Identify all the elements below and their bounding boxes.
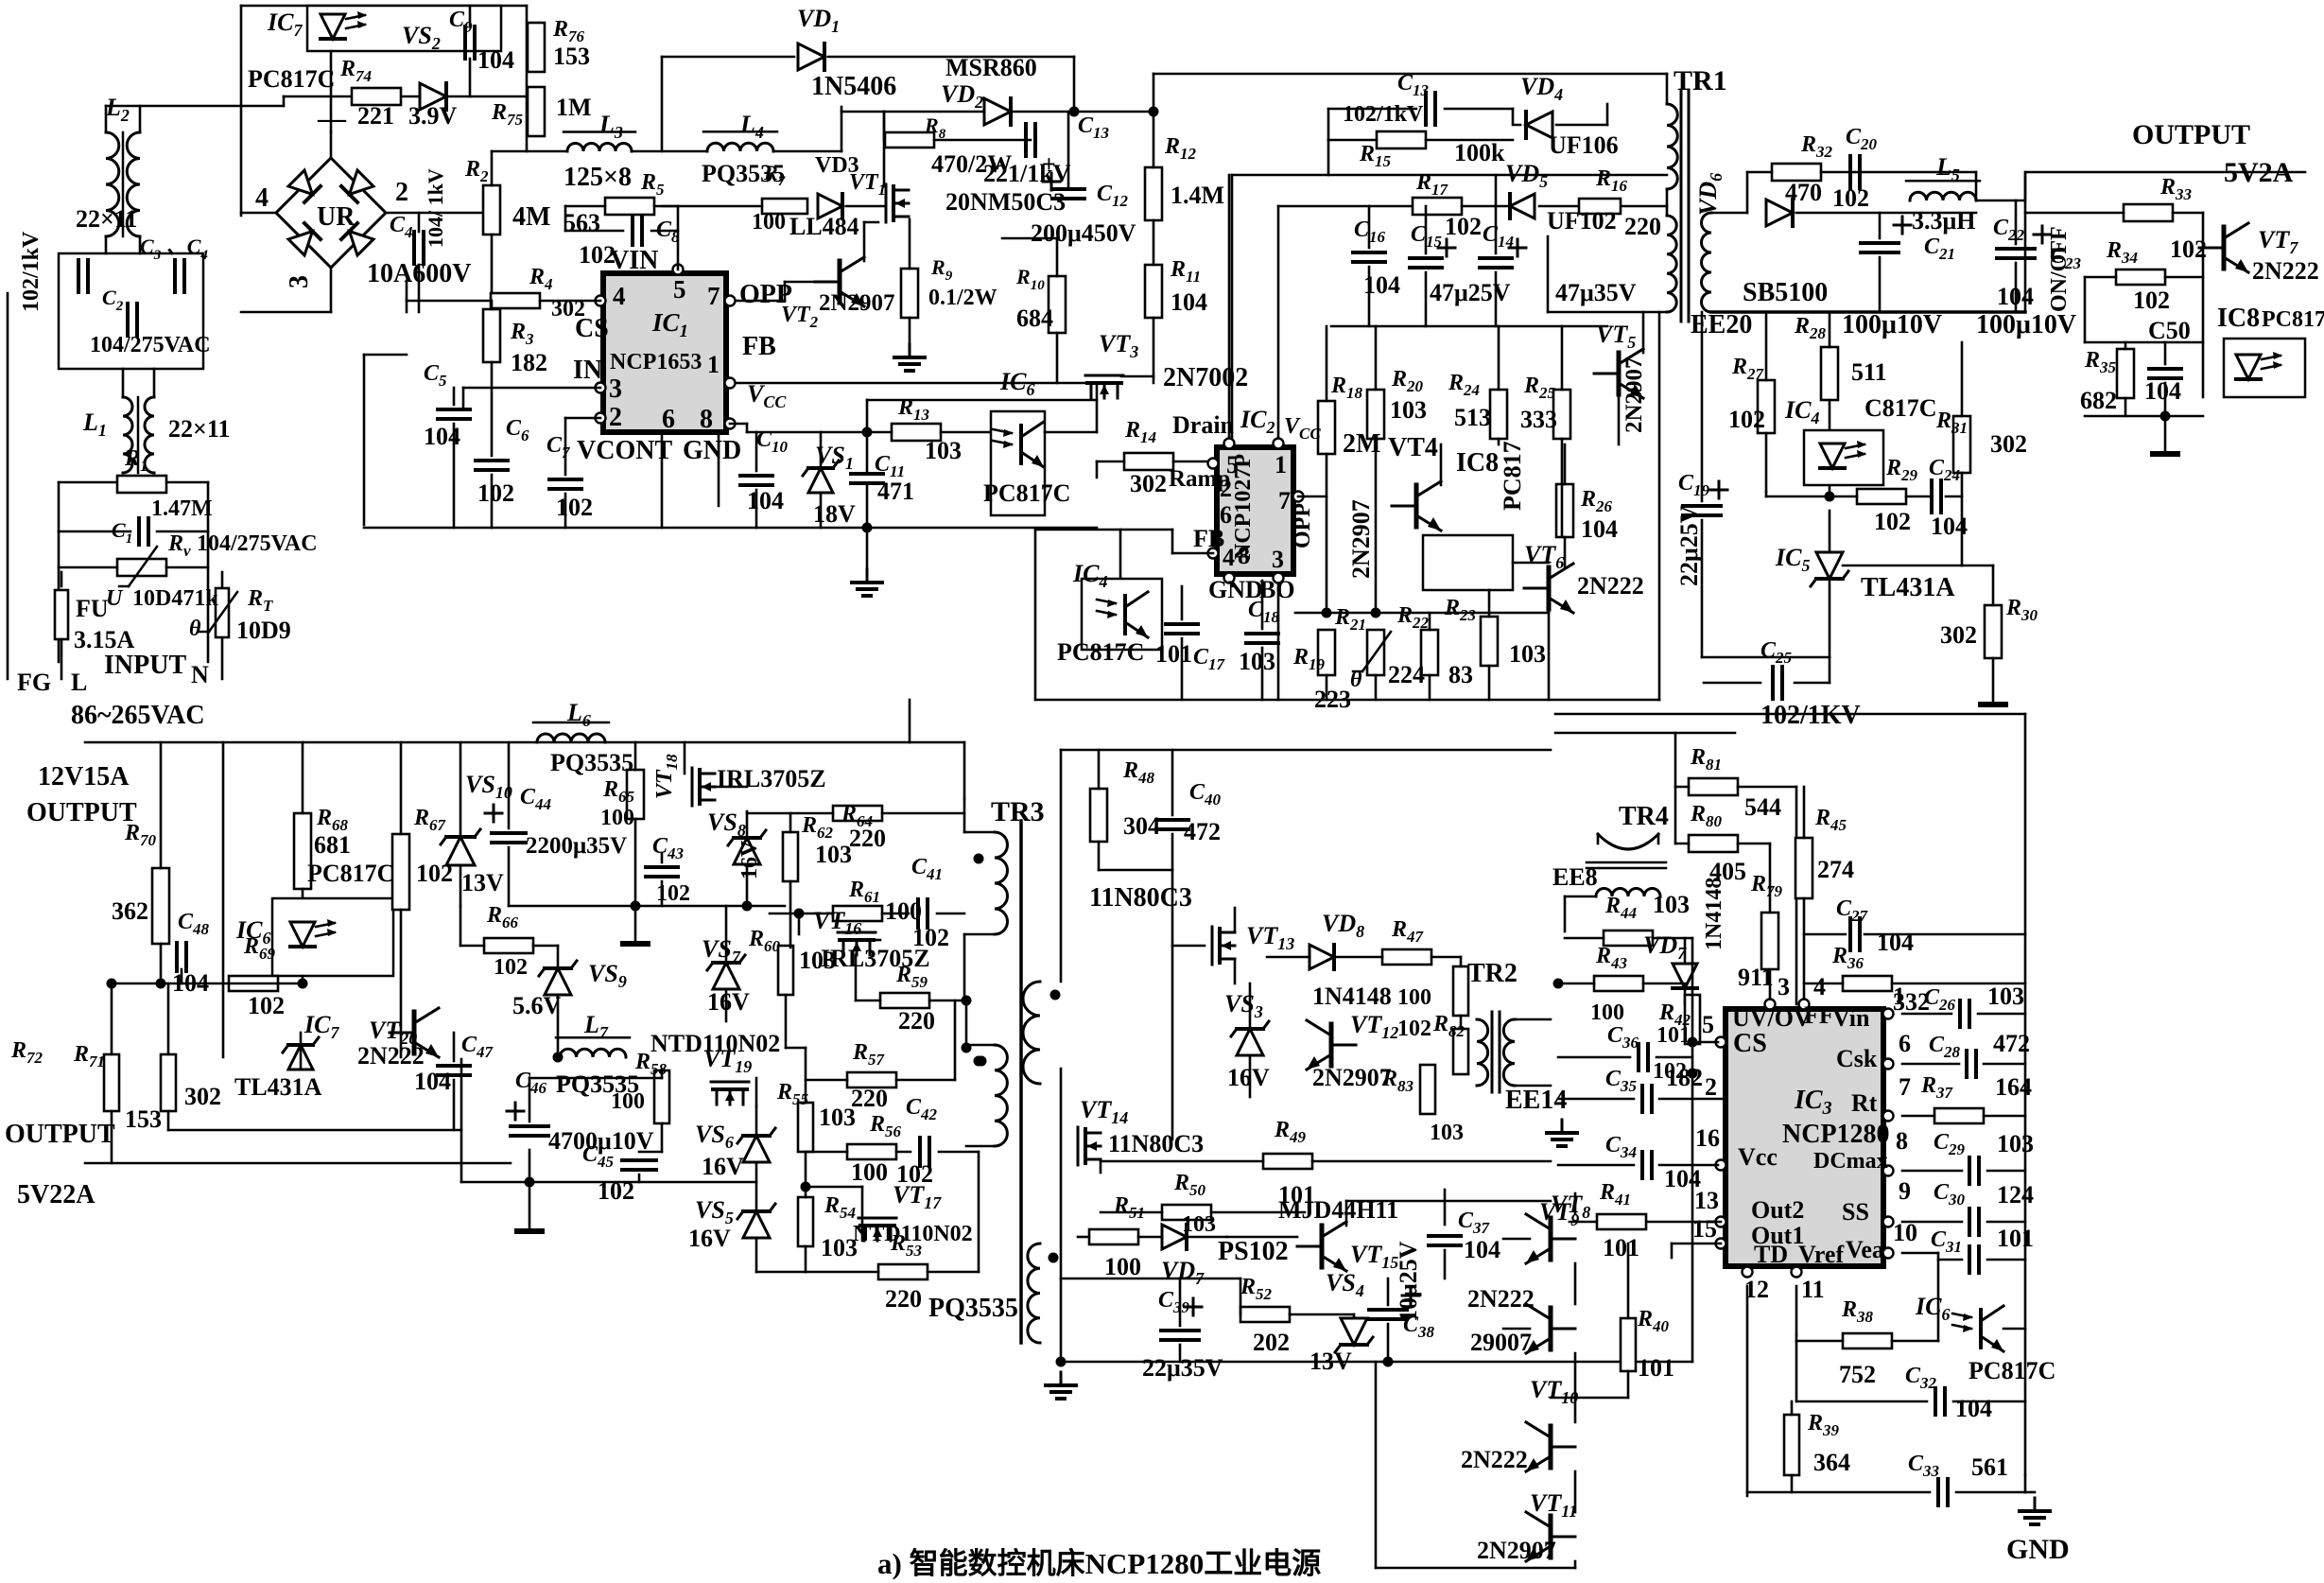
svg-text:86~265VAC: 86~265VAC [71,701,205,730]
svg-text:IC8: IC8 [1456,448,1499,478]
svg-text:IN: IN [573,356,602,385]
svg-text:10D471k: 10D471k [132,586,218,611]
svg-text:Out2: Out2 [1751,1196,1804,1224]
svg-text:302: 302 [184,1083,221,1110]
svg-text:103: 103 [1509,640,1546,668]
svg-text:2N2907: 2N2907 [1622,357,1647,433]
svg-text:153: 153 [553,43,590,70]
svg-text:563: 563 [564,209,600,236]
svg-text:102: 102 [656,881,690,906]
svg-text:VT4: VT4 [1388,433,1438,462]
svg-text:1.47M: 1.47M [151,496,213,521]
svg-text:IC8: IC8 [2217,304,2260,333]
svg-text:EE14: EE14 [1505,1086,1567,1115]
svg-text:2M: 2M [1343,429,1380,459]
svg-text:IRL3705Z: IRL3705Z [821,945,930,972]
svg-text:10D9: 10D9 [236,617,291,644]
svg-text:302: 302 [1940,621,1977,649]
svg-text:OUTPUT: OUTPUT [5,1120,115,1149]
svg-text:16: 16 [1695,1124,1720,1152]
svg-text:911: 911 [1738,964,1774,991]
svg-text:2N222: 2N222 [357,1042,425,1070]
svg-text:202: 202 [1253,1329,1290,1356]
svg-text:103: 103 [819,1104,856,1131]
svg-text:BO: BO [1259,576,1295,603]
svg-text:θ: θ [189,617,201,641]
svg-text:182: 182 [1666,1064,1703,1091]
svg-text:544: 544 [1744,793,1781,821]
svg-text:Csk: Csk [1836,1045,1878,1072]
svg-text:13V: 13V [1309,1348,1352,1375]
svg-text:C50: C50 [2148,317,2191,344]
svg-text:PC817C: PC817C [307,860,394,887]
svg-text:101: 101 [1638,1354,1674,1382]
svg-text:104: 104 [747,487,784,514]
svg-text:102: 102 [2170,235,2207,263]
svg-text:IRL3705Z: IRL3705Z [717,765,826,792]
svg-text:8: 8 [700,405,713,434]
svg-text:12: 12 [1744,1276,1769,1303]
svg-text:302: 302 [551,297,585,322]
svg-text:1M: 1M [556,94,592,121]
svg-text:472: 472 [1184,818,1221,845]
svg-text:7: 7 [1278,487,1291,514]
svg-text:100: 100 [885,897,922,925]
svg-text:302: 302 [1990,430,2027,458]
svg-text:20NM50C3: 20NM50C3 [945,188,1066,216]
svg-text:2200μ35V: 2200μ35V [526,833,627,859]
svg-text:10A600V: 10A600V [367,259,471,288]
svg-text:104: 104 [1171,288,1207,316]
svg-text:4: 4 [1813,973,1826,1000]
svg-text:472: 472 [1993,1030,2030,1057]
svg-text:100: 100 [1590,1000,1624,1025]
svg-text:102: 102 [416,860,453,887]
svg-text:DCmax: DCmax [1813,1149,1888,1174]
svg-text:102: 102 [494,955,528,980]
svg-text:103: 103 [1430,1121,1464,1145]
svg-text:Vref: Vref [1798,1241,1844,1268]
svg-text:18V: 18V [813,500,856,528]
svg-text:5V2A: 5V2A [2224,157,2294,188]
svg-text:16V: 16V [1227,1064,1270,1091]
svg-text:SB5100: SB5100 [1743,278,1828,307]
svg-text:LL484: LL484 [789,213,859,240]
svg-text:2N222: 2N222 [1461,1446,1528,1473]
svg-text:103: 103 [1997,1130,2034,1157]
svg-text:223: 223 [1314,686,1351,713]
svg-text:8: 8 [1896,1127,1908,1155]
svg-text:104: 104 [424,423,460,450]
svg-text:104/275VAC: 104/275VAC [197,531,318,556]
svg-text:PC817: PC817 [1499,441,1526,511]
svg-text:11N80C3: 11N80C3 [1108,1130,1204,1157]
svg-text:OUTPUT: OUTPUT [2132,119,2250,150]
svg-text:2N2907: 2N2907 [1347,499,1375,579]
svg-text:104: 104 [477,46,514,74]
svg-text:104: 104 [1363,271,1400,299]
svg-text:PQ3535: PQ3535 [550,749,633,776]
svg-text:22×11: 22×11 [168,415,230,443]
svg-text:103: 103 [799,947,836,974]
svg-text:FF: FF [1804,1001,1834,1029]
svg-text:681: 681 [314,831,351,859]
svg-text:2N222: 2N222 [1467,1285,1535,1313]
svg-text:2N222: 2N222 [1577,572,1644,600]
svg-text:2N2907: 2N2907 [1477,1537,1556,1564]
svg-text:NCP1653: NCP1653 [610,350,702,374]
svg-text:NCP1027P: NCP1027P [1231,454,1256,560]
svg-text:2: 2 [609,403,622,432]
svg-text:ON/OFF: ON/OFF [2047,226,2072,312]
svg-text:561: 561 [1971,1453,2008,1481]
svg-text:FG: FG [17,669,51,696]
svg-text:47μ35V: 47μ35V [1555,279,1637,306]
svg-text:104/ 1kV: 104/ 1kV [424,168,447,248]
svg-text:100: 100 [1397,985,1431,1010]
svg-text:220: 220 [885,1285,922,1313]
svg-text:103: 103 [1653,891,1690,918]
svg-text:100: 100 [851,1158,888,1186]
svg-text:2N222: 2N222 [2252,257,2319,285]
svg-text:NCP1280: NCP1280 [1782,1120,1890,1149]
svg-text:Vin: Vin [1832,1004,1870,1032]
svg-text:104: 104 [1664,1165,1701,1192]
svg-text:3.9V: 3.9V [408,102,458,130]
svg-text:100: 100 [1104,1253,1141,1280]
svg-text:83: 83 [1448,661,1473,688]
svg-text:102: 102 [1445,213,1482,240]
svg-text:102: 102 [598,1177,634,1205]
svg-text:100: 100 [600,806,634,830]
svg-text:13V: 13V [461,869,504,896]
svg-text:220: 220 [849,825,886,852]
svg-text:100: 100 [752,210,786,235]
svg-text:UV/OV: UV/OV [1732,1004,1812,1032]
svg-text:274: 274 [1817,856,1854,883]
svg-text:103: 103 [1987,983,2024,1010]
svg-text:Vea: Vea [1846,1236,1884,1263]
svg-text:2N2907: 2N2907 [1312,1064,1392,1091]
svg-text:6: 6 [662,405,675,434]
svg-text:752: 752 [1839,1361,1876,1388]
svg-text:+: + [1042,150,1056,178]
svg-text:102: 102 [1728,406,1765,433]
svg-text:101: 101 [1603,1234,1639,1261]
svg-text:22×11: 22×11 [76,205,137,233]
svg-text:3: 3 [285,275,314,288]
svg-text:100μ10V: 100μ10V [1976,310,2076,339]
svg-text:104: 104 [1877,929,1914,956]
svg-text:302: 302 [1130,470,1167,497]
svg-text:MJD44H11: MJD44H11 [1278,1196,1398,1224]
svg-text:1N5406: 1N5406 [811,72,896,101]
svg-text:3: 3 [609,374,622,404]
svg-text:FB: FB [742,332,776,361]
svg-text:224: 224 [1388,661,1425,688]
svg-text:104: 104 [172,969,209,997]
svg-text:3.15A: 3.15A [74,626,135,653]
svg-text:TD: TD [1754,1241,1788,1268]
svg-text:15: 15 [1692,1215,1717,1243]
svg-text:101: 101 [1656,1023,1691,1048]
svg-text:4700μ10V: 4700μ10V [548,1127,654,1155]
svg-text:1N4148: 1N4148 [1702,878,1726,950]
svg-text:682: 682 [2080,387,2117,414]
svg-text:304: 304 [1123,812,1160,840]
svg-text:364: 364 [1813,1449,1850,1476]
svg-text:362: 362 [112,897,148,925]
svg-text:164: 164 [1995,1073,2032,1101]
svg-text:5V22A: 5V22A [17,1180,95,1209]
svg-text:1: 1 [707,351,720,378]
svg-text:2N7002: 2N7002 [1163,363,1248,392]
svg-text:102: 102 [579,241,616,269]
svg-text:3: 3 [1778,973,1790,1000]
svg-text:220: 220 [898,1007,935,1035]
svg-text:22μ35V: 22μ35V [1142,1354,1223,1382]
svg-text:5: 5 [673,275,686,304]
svg-text:102: 102 [2133,287,2170,314]
svg-text:2: 2 [395,178,408,207]
svg-text:1: 1 [1275,451,1287,478]
svg-text:Rt: Rt [1851,1089,1878,1117]
svg-text:OUTPUT: OUTPUT [26,798,137,827]
svg-text:125×8: 125×8 [564,163,632,192]
svg-text:UR: UR [317,202,356,232]
svg-text:104: 104 [1464,1236,1500,1263]
svg-text:104: 104 [1581,515,1618,543]
svg-text:U: U [106,586,124,611]
svg-text:6: 6 [1899,1030,1911,1057]
svg-text:104/275VAC: 104/275VAC [90,333,211,357]
svg-text:Vcc: Vcc [1738,1143,1778,1171]
svg-text:VCONT: VCONT [577,436,672,465]
svg-text:684: 684 [1016,304,1053,332]
svg-text:C817C: C817C [1864,394,1937,422]
svg-text:TL431A: TL431A [1861,573,1955,602]
svg-text:102/1kV: 102/1kV [1343,102,1424,127]
svg-text:11: 11 [1801,1276,1825,1303]
svg-text:100μ10V: 100μ10V [1842,310,1942,339]
svg-text:4: 4 [613,282,626,310]
svg-text:200μ450V: 200μ450V [1031,219,1136,247]
svg-text:7: 7 [707,282,720,310]
svg-text:471: 471 [877,478,914,505]
svg-text:103: 103 [1182,1212,1216,1237]
svg-text:102: 102 [477,479,514,507]
svg-text:5: 5 [1702,1011,1714,1038]
svg-text:104: 104 [1955,1395,1992,1422]
svg-text:TR4: TR4 [1619,802,1669,831]
svg-text:103: 103 [925,437,962,464]
svg-text:UF106: UF106 [1549,131,1619,159]
svg-text:333: 333 [1520,406,1557,433]
svg-text:N: N [191,661,209,688]
svg-text:PC817C: PC817C [1057,638,1144,666]
svg-text:7: 7 [1899,1073,1911,1101]
svg-text:GND: GND [683,436,741,465]
svg-text:5.6V: 5.6V [512,992,562,1019]
svg-text:102/1KV: 102/1KV [1760,701,1861,730]
svg-text:PC817C: PC817C [983,479,1070,507]
svg-text:153: 153 [125,1105,162,1133]
svg-text:TR1: TR1 [1674,65,1727,96]
svg-text:221: 221 [357,102,394,130]
svg-text:103: 103 [1239,648,1275,675]
svg-text:4: 4 [255,183,269,213]
svg-text:16V: 16V [737,840,762,879]
svg-text:PC817C: PC817C [248,65,335,93]
svg-text:16V: 16V [688,1225,731,1252]
svg-text:470: 470 [1785,179,1822,206]
svg-text:12V15A: 12V15A [38,762,130,791]
svg-text:UF102: UF102 [1547,207,1617,235]
svg-text:a) 智能数控机床NCP1280工业电源: a) 智能数控机床NCP1280工业电源 [877,1547,1321,1580]
svg-text:1.4M: 1.4M [1171,182,1224,209]
svg-text:22μ25V: 22μ25V [1675,505,1703,586]
svg-text:PS102: PS102 [1218,1237,1289,1266]
svg-text:OPP: OPP [739,280,792,309]
svg-text:VIN: VIN [610,246,658,275]
svg-text:PQ3535: PQ3535 [928,1294,1018,1323]
svg-text:11N80C3: 11N80C3 [1089,883,1192,913]
svg-text:100k: 100k [1454,139,1505,166]
svg-text:221/1kV: 221/1kV [983,160,1071,187]
svg-text:1: 1 [1893,983,1905,1010]
svg-text:9: 9 [1899,1177,1911,1205]
svg-text:3: 3 [1272,546,1284,573]
svg-text:104: 104 [1997,283,2034,310]
svg-text:101: 101 [1155,640,1192,668]
svg-text:101: 101 [1997,1225,2034,1252]
svg-text:10μ25V: 10μ25V [1395,1241,1422,1322]
svg-text:16V: 16V [702,1153,744,1180]
svg-text:1N4148: 1N4148 [1312,983,1392,1010]
svg-text:182: 182 [511,349,547,376]
svg-text:INPUT: INPUT [104,651,186,680]
svg-text:100: 100 [611,1089,645,1114]
svg-text:3.3μH: 3.3μH [1912,207,1975,235]
svg-text:CS: CS [1733,1029,1767,1058]
svg-text:102: 102 [1874,508,1911,535]
svg-text:102: 102 [1832,184,1869,212]
svg-text:220: 220 [1624,213,1661,240]
svg-text:47μ25V: 47μ25V [1430,279,1511,306]
svg-text:16V: 16V [707,988,750,1016]
svg-text:220: 220 [851,1085,888,1112]
svg-text:EE8: EE8 [1552,863,1598,891]
svg-text:2: 2 [1705,1073,1717,1101]
svg-text:511: 511 [1851,358,1887,386]
svg-text:TR3: TR3 [991,796,1045,827]
svg-text:GND: GND [2006,1534,2070,1565]
svg-text:10: 10 [1893,1219,1917,1246]
svg-text:SS: SS [1842,1198,1869,1226]
svg-text:102: 102 [556,494,593,521]
svg-text:EE20: EE20 [1691,310,1752,339]
svg-text:103: 103 [815,841,852,868]
svg-text:104: 104 [414,1068,451,1095]
svg-text:124: 124 [1997,1181,2034,1209]
svg-text:TL431A: TL431A [234,1073,322,1101]
svg-text:Drain: Drain [1172,411,1235,439]
svg-text:2N2907: 2N2907 [819,290,895,316]
svg-text:29007: 29007 [1470,1329,1532,1356]
svg-text:PC817A: PC817A [2262,307,2324,332]
svg-text:PC817C: PC817C [1968,1357,2055,1384]
svg-text:104: 104 [1931,513,1968,540]
svg-text:FU: FU [76,595,109,622]
svg-text:0.1/2W: 0.1/2W [928,286,997,310]
svg-text:MSR860: MSR860 [945,54,1037,81]
svg-text:OPP: OPP [1291,503,1315,548]
svg-text:102: 102 [248,992,285,1019]
svg-text:L: L [71,669,87,696]
svg-text:4M: 4M [512,202,550,232]
svg-text:513: 513 [1454,404,1491,431]
svg-text:104: 104 [2144,377,2181,405]
svg-text:TR2: TR2 [1467,959,1518,988]
svg-text:102/1kV: 102/1kV [19,231,43,312]
svg-text:θ: θ [1350,668,1362,692]
svg-text:FB: FB [1193,525,1224,552]
svg-text:102: 102 [1397,1017,1431,1041]
svg-text:—: — [317,103,347,134]
svg-text:103: 103 [1390,396,1427,424]
